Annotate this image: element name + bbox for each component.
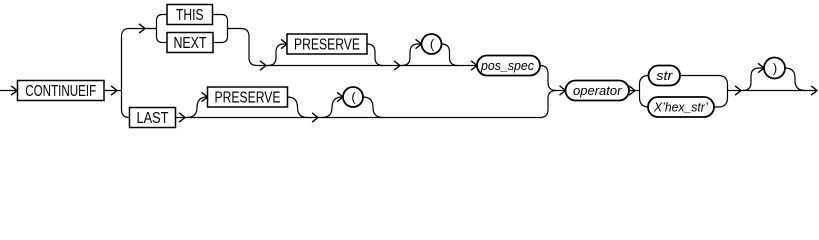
delimiter circle )	[764, 58, 785, 79]
svg-text:LAST: LAST	[137, 110, 169, 127]
arrow on lower baseline after LAST	[180, 113, 186, 122]
wire: CONTINUEIF to branch point	[104, 90, 122, 92]
wire: merged line down to upper baseline	[228, 29, 258, 66]
arrow on main line before ) bypass	[736, 86, 742, 95]
wire: bypass up into lower (	[322, 97, 342, 118]
wire: bypass up into upper PRESERVE	[268, 44, 287, 66]
wire: into NEXT	[163, 42, 168, 44]
wire: main line to exit	[728, 90, 818, 92]
wire: THIS/NEXT split bracket	[157, 15, 163, 43]
variable oval operator	[566, 81, 630, 101]
arrow into upper (	[416, 40, 422, 49]
arrow into lower (	[338, 93, 344, 102]
variable oval str	[649, 66, 681, 86]
wire: lower baseline	[176, 117, 541, 119]
arrow on lower baseline before (	[313, 113, 319, 122]
wire: into THIS	[163, 14, 168, 16]
wire: bypass up into )	[743, 68, 764, 91]
wire: str/X merge bracket	[680, 76, 728, 108]
wire: pos_spec down to main line	[540, 66, 556, 91]
wire: lower ( exit down to baseline	[363, 97, 383, 118]
wire: operator to str/X split	[629, 90, 640, 92]
keyword box LAST	[130, 108, 176, 128]
svg-text:PRESERVE: PRESERVE	[294, 36, 360, 53]
svg-text:(: (	[351, 90, 356, 105]
wire: lower PRESERVE exit down to baseline	[288, 97, 308, 118]
wire: bypass up into upper (	[402, 44, 422, 66]
svg-text:pos_spec: pos_spec	[480, 58, 534, 73]
variable oval pos_spec	[477, 56, 540, 76]
exit arrow	[812, 86, 818, 95]
arrow into upper PRESERVE	[282, 40, 288, 49]
arrow before THIS/NEXT split	[140, 24, 146, 33]
arrow into lower PRESERVE	[202, 93, 208, 102]
svg-text:(: (	[430, 37, 435, 52]
arrow into CONTINUEIF	[12, 86, 18, 95]
keyword box CONTINUEIF	[18, 81, 105, 101]
arrow into )	[759, 64, 765, 73]
wire: ) exit down to main line	[785, 68, 805, 91]
wire: str/X'hex_str' split bracket	[640, 76, 650, 108]
keyword box PRESERVE (upper)	[287, 34, 367, 54]
arrow on upper baseline before PRESERVE	[261, 61, 267, 70]
svg-text:operator: operator	[573, 83, 622, 98]
keyword box THIS	[167, 5, 213, 25]
delimiter circle ( lower	[343, 87, 363, 107]
wire: upper ( exit down to baseline	[442, 44, 458, 66]
keyword box PRESERVE (lower)	[208, 87, 288, 107]
wire: bypass up into lower PRESERVE	[187, 97, 207, 118]
arrow into operator	[560, 86, 566, 95]
arrow after CONTINUEIF	[112, 86, 118, 95]
wire: branch vertical up to THIS/NEXT path	[122, 29, 157, 91]
svg-text:str: str	[656, 68, 673, 83]
keyword box NEXT	[167, 33, 213, 53]
svg-text:PRESERVE: PRESERVE	[215, 89, 281, 106]
wire: branch vertical down to LAST path	[122, 91, 130, 118]
wire: upper baseline	[257, 65, 477, 67]
arrow on upper baseline before (	[395, 61, 401, 70]
arrow into pos_spec	[472, 61, 478, 70]
wire: lower baseline up to main line	[540, 91, 556, 118]
wire: upper PRESERVE exit down to baseline	[367, 44, 383, 66]
svg-text:): )	[773, 61, 777, 76]
svg-text:THIS: THIS	[176, 7, 204, 24]
wire: entry main line	[0, 90, 17, 92]
svg-text:CONTINUEIF: CONTINUEIF	[25, 83, 96, 100]
wire: merge to operator	[556, 90, 566, 92]
arrow after operator	[630, 86, 636, 95]
variable oval X'hex_str'	[648, 97, 714, 117]
wire: THIS/NEXT merge bracket	[213, 15, 228, 43]
delimiter circle ( upper	[422, 34, 442, 54]
svg-text:X’hex_str’: X’hex_str’	[653, 100, 709, 115]
svg-text:NEXT: NEXT	[174, 35, 207, 52]
